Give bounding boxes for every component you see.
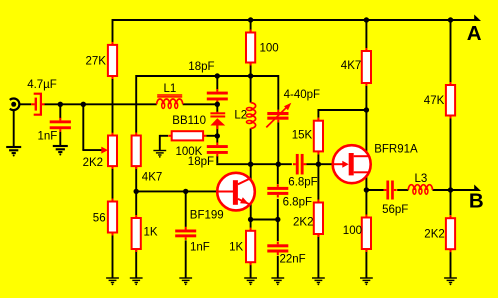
svg-text:L2: L2: [234, 109, 247, 121]
wire 47K top: [450, 20, 452, 82]
capacitor C 22nF: [267, 242, 288, 255]
junction collector / 15K branch: [364, 107, 369, 112]
wire bus right of 6.8pF: [306, 163, 332, 165]
label 100 amp: [343, 225, 362, 237]
wire trimmer bottom: [277, 122, 279, 164]
svg-text:L1: L1: [164, 83, 177, 95]
wire pot feed horizontal: [82, 149, 101, 151]
wire 27K column top: [112, 19, 114, 45]
label 4.7uF: [27, 79, 57, 91]
wire 47K bottom long: [450, 119, 452, 191]
wire 6.8pF2 top: [277, 164, 279, 184]
resistor R 100 osc: [246, 30, 255, 66]
wire rail y76: [136, 75, 278, 77]
svg-text:2K2: 2K2: [83, 157, 103, 169]
label BB110: [172, 115, 206, 127]
label 1K base: [144, 226, 158, 238]
label BF199: [190, 209, 224, 221]
junction top rail / 4K7: [364, 17, 369, 22]
capacitor C 18pF lower: [207, 143, 228, 157]
junction base / 1nF2: [183, 189, 188, 194]
svg-text:4-40pF: 4-40pF: [284, 89, 320, 101]
svg-text:18pF: 18pF: [188, 61, 214, 73]
junction L3 / output B: [448, 187, 453, 192]
label 6.8pF shunt: [283, 197, 312, 209]
svg-text:2K2: 2K2: [293, 217, 313, 229]
arrowhead output A: [474, 15, 481, 22]
resistor R 1K osc-emitter: [246, 228, 255, 265]
wire 100K right lead: [206, 135, 217, 137]
wire 1K bottom to ground: [135, 249, 137, 278]
junction rail76 / 18pF: [215, 73, 220, 78]
wire 100K left hook: [160, 135, 168, 151]
svg-text:2K2: 2K2: [424, 228, 444, 240]
wire 4K7 bottom to base node: [135, 166, 137, 191]
label 4K7 amp: [341, 60, 361, 72]
ground (1nF emitter): [179, 278, 192, 285]
resistor R 27K: [108, 42, 117, 79]
label 47K: [424, 95, 445, 107]
resistor R 100K: [168, 131, 206, 140]
resistor R 15K: [314, 118, 323, 155]
wire 18pF to node: [216, 101, 218, 104]
label 56pF: [382, 204, 408, 216]
capacitor C 4.7uF: [31, 94, 44, 115]
label 6.8pF series: [288, 177, 317, 189]
wire 15K branch: [318, 109, 366, 118]
label 100 osc: [260, 42, 279, 54]
wire base row: [136, 190, 217, 192]
label 2K2 emitter-bias: [293, 217, 313, 229]
ground (22nF): [271, 278, 284, 285]
capacitor trimmer 4-40pF: [266, 103, 291, 128]
label 2K2 output: [424, 228, 444, 240]
wire input row mid: [44, 103, 156, 105]
svg-text:1K: 1K: [229, 242, 243, 254]
wire 1nF bottom to ground: [59, 132, 61, 146]
inductor L3: [408, 185, 432, 195]
wire resistor 56 to ground: [112, 233, 114, 279]
wire varicap bottom stub: [216, 125, 218, 136]
capacitor C 18pF top: [207, 89, 228, 103]
wire pot feed down: [82, 104, 84, 150]
svg-text:BF199: BF199: [190, 209, 224, 221]
junction input / 1nF: [58, 102, 63, 107]
wire 100 bottom stub: [250, 63, 252, 77]
label 1K osc: [229, 242, 243, 254]
junction input / pot feed: [81, 102, 86, 107]
svg-text:L3: L3: [415, 173, 428, 185]
resistor R 4K7 bias: [132, 133, 141, 170]
label 4-40pF: [284, 89, 320, 101]
junction bus / 15K: [316, 162, 321, 167]
wire 2K2c bottom to ground: [317, 234, 319, 278]
wire 100b bottom to ground: [365, 249, 367, 278]
wire 2K2d top: [450, 190, 452, 215]
wire L2 top: [250, 76, 252, 103]
svg-text:100: 100: [343, 225, 362, 237]
ground (1K base): [130, 278, 143, 285]
ground (100 amp): [360, 278, 373, 285]
wire emitter row to 56pF: [366, 189, 383, 191]
resistor R 4K7 amp: [362, 48, 371, 86]
label 56: [93, 213, 106, 225]
wire BFR91A emitter down: [365, 176, 367, 190]
connector J1 input: [10, 99, 20, 111]
resistor R 2K2 output: [446, 215, 455, 252]
ground (56): [106, 278, 119, 285]
wire varicap top stub: [216, 104, 218, 112]
svg-text:1nF: 1nF: [38, 131, 58, 143]
wire 2K2d bottom to ground: [450, 249, 452, 278]
junction emitter / 22nF: [275, 217, 280, 222]
label 2K2 pot: [83, 157, 103, 169]
label 27K: [86, 56, 107, 68]
label 22nF: [280, 254, 306, 266]
capacitor C 56pF: [384, 181, 397, 200]
svg-text:56pF: 56pF: [382, 204, 408, 216]
capacitor C 1nF emitter: [175, 227, 196, 240]
label L1: [164, 83, 177, 95]
inductor L1: [157, 95, 183, 109]
svg-text:B: B: [469, 190, 484, 213]
wire 2K2c top: [317, 164, 319, 199]
transistor BFR91A: [333, 145, 371, 183]
label 18pF top: [188, 61, 214, 73]
wire top rail A: [113, 19, 476, 21]
wire emitter row BF199: [251, 219, 278, 221]
wire L2 bottom: [250, 128, 252, 164]
junction top rail / 100: [248, 17, 253, 22]
svg-text:47K: 47K: [424, 95, 445, 107]
label node B: [469, 190, 484, 213]
junction base / 4K7: [134, 189, 139, 194]
label 15K: [292, 129, 313, 141]
ground (input 1nF): [53, 146, 68, 156]
label 1nF emitter: [190, 242, 210, 254]
svg-text:4K7: 4K7: [341, 60, 361, 72]
capacitor C 6.8pF series: [293, 154, 306, 175]
wire rail y76 corner left down to 4K7: [135, 75, 137, 133]
wire input row right of L1: [183, 103, 218, 105]
transistor BF199: [217, 173, 255, 211]
capacitor C 1nF input: [50, 118, 71, 132]
svg-text:18pF: 18pF: [188, 156, 214, 168]
diode BB110 varicap: [210, 112, 225, 130]
wire connector to ground: [13, 110, 15, 148]
wire 18pF top stub: [216, 76, 218, 89]
junction input / L1-varicap: [215, 102, 220, 107]
svg-text:BFR91A: BFR91A: [374, 143, 418, 155]
junction top rail / 47K: [448, 17, 453, 22]
wire BF199 collector: [250, 164, 252, 180]
arrowhead output B: [474, 185, 481, 192]
wire 4K7a bottom: [365, 86, 367, 110]
wire bus mid: [251, 163, 292, 165]
wire node136 to 18pF2: [216, 136, 218, 143]
wire 22nF bottom to ground: [277, 256, 279, 278]
label BFR91A: [374, 143, 418, 155]
svg-text:56: 56: [93, 213, 106, 225]
inductor L2: [246, 103, 255, 129]
wire 100 top stub: [250, 20, 252, 33]
svg-text:A: A: [467, 22, 482, 45]
ground (input connector): [6, 147, 21, 157]
wire input row left: [19, 103, 31, 105]
wire pot 2K2 to resistor 56: [112, 166, 114, 201]
label 1nF input: [38, 131, 58, 143]
resistor R 1K base: [132, 215, 141, 252]
svg-text:15K: 15K: [292, 129, 313, 141]
capacitor C 6.8pF shunt: [267, 184, 288, 197]
wire 1K2 bottom to ground: [250, 262, 252, 278]
wire 15K bottom: [317, 154, 319, 164]
label node A: [467, 22, 482, 45]
wire 1K2 top: [250, 220, 252, 228]
ground (2K2 emitter-bias): [312, 278, 325, 285]
resistor R 56: [108, 199, 117, 236]
wire base node to 1K: [135, 191, 137, 215]
wire 4K7a top: [365, 20, 367, 48]
wire L3 to node: [433, 189, 451, 191]
ground (1K osc): [244, 278, 257, 285]
resistor R 2K2 emitter-bias: [314, 200, 323, 238]
wire 18pF2 to bus corner: [216, 156, 250, 164]
svg-text:1nF: 1nF: [190, 242, 210, 254]
junction bus / trimmer: [276, 162, 281, 167]
wire trimmer top: [277, 75, 279, 110]
wire 1nF top: [59, 104, 61, 118]
svg-text:4.7µF: 4.7µF: [27, 79, 57, 91]
wire 6.8pF2 bottom: [277, 199, 279, 220]
label 4K7 bias: [142, 172, 162, 184]
wire B arrow: [451, 189, 476, 191]
potentiometer 2K2: [101, 133, 117, 169]
svg-text:BB110: BB110: [172, 115, 206, 127]
junction emitter / 1K2: [248, 217, 253, 222]
label 18pF lower: [188, 156, 214, 168]
ground (2K2 output): [444, 278, 457, 285]
wire 1nF2 bottom to ground: [185, 240, 187, 278]
svg-text:27K: 27K: [86, 56, 107, 68]
wire 100b top: [365, 190, 367, 215]
resistor R 47K: [446, 82, 455, 119]
svg-text:6.8pF: 6.8pF: [288, 177, 317, 189]
label 100K: [176, 146, 203, 158]
svg-text:1K: 1K: [144, 226, 158, 238]
ground (100K bias): [153, 151, 166, 158]
wire 27K bottom to pot 2K2: [112, 76, 114, 135]
wire 22nF top: [277, 220, 279, 242]
svg-text:22nF: 22nF: [280, 254, 306, 266]
svg-text:100: 100: [260, 42, 279, 54]
label L3: [415, 173, 428, 185]
svg-text:6.8pF: 6.8pF: [283, 197, 312, 209]
junction bus / L2-collector: [248, 162, 253, 167]
resistor R 100 amp-emitter: [362, 215, 371, 253]
svg-text:4K7: 4K7: [142, 172, 162, 184]
wire 1nF2 top: [185, 191, 187, 227]
wire BF199 emitter: [250, 204, 252, 220]
wire 56pF to L3: [397, 189, 408, 191]
junction emitter / 56pF: [364, 187, 369, 192]
junction varicap / 100K: [215, 133, 220, 138]
junction rail76 / 100-L2: [248, 73, 253, 78]
wire BFR91A collector up: [365, 110, 367, 153]
label L2: [234, 109, 247, 121]
